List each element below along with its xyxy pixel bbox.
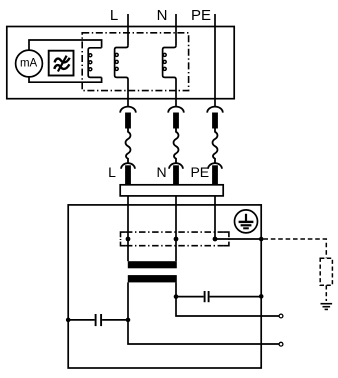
junction: secondary right / C2 [174, 294, 179, 299]
svg-text:PE: PE [190, 164, 209, 180]
connector socket PE (lower) [208, 163, 222, 169]
capacitor C2 [176, 291, 261, 302]
svg-text:N: N [156, 164, 166, 180]
wire secondary left [128, 282, 279, 344]
dashed earth connection (external) [263, 239, 326, 258]
winding W2 (L conductor) [115, 46, 128, 108]
connector pin L (upper) [125, 113, 131, 129]
transformer secondary bar [128, 275, 177, 282]
filter symbol (crossed sine waves) [54, 56, 69, 72]
output terminal (lower) [279, 342, 283, 346]
protective-earth terminal symbol (earth in circle) [235, 210, 258, 233]
wire PE (top, straight through box) [214, 14, 216, 107]
junction: L at filter [126, 237, 131, 242]
junction: C2 at enclosure wall [259, 294, 264, 299]
connector socket L (lower) [121, 163, 135, 169]
svg-text:mA: mA [20, 57, 38, 69]
measuring-unit enclosure (top box) [7, 27, 234, 99]
capacitor C1 [68, 314, 128, 326]
mains filter block (dash-dot screen) [121, 232, 229, 246]
junction: PE at filter [213, 237, 218, 242]
transformer primary bar [128, 261, 177, 268]
flexible cord PE [213, 129, 218, 164]
milliammeter mA [16, 50, 43, 77]
junction: PE at enclosure wall [259, 237, 264, 242]
current-probe screen (dash-dot box around windings) [82, 33, 188, 91]
svg-text:L: L [110, 7, 118, 24]
appliance inlet terminal strip [120, 185, 223, 196]
junction: N at filter [174, 237, 179, 242]
sense winding W1 [88, 48, 101, 78]
wire N (top) [175, 14, 177, 45]
flexible cord N [174, 129, 179, 164]
wire N (strip to transformer primary) [175, 196, 177, 261]
connector pin L (lower) [125, 165, 131, 185]
connector pin PE (lower) [212, 165, 218, 185]
junction: C1 at secondary left [126, 318, 131, 323]
svg-text:PE: PE [191, 7, 211, 24]
earth (ground) symbol [321, 304, 333, 310]
connector socket N (upper) [168, 107, 184, 113]
wire: measuring loop through sense winding [29, 40, 102, 50]
EUT enclosure (bottom box) [68, 205, 261, 368]
wire L (top) [127, 14, 129, 45]
flexible cord L [126, 129, 131, 164]
svg-text:L: L [108, 164, 116, 180]
wire PE to enclosure [215, 238, 261, 240]
output terminal (upper) [279, 314, 283, 318]
dashed wire to earth [325, 285, 327, 301]
wire secondary right [176, 282, 279, 316]
winding W3 (N conductor) [163, 46, 176, 108]
junction: enclosure left wall / C1 [66, 318, 71, 323]
filter box [49, 51, 74, 76]
wire PE (strip into EUT) [214, 196, 216, 239]
connector pin N (upper) [173, 113, 179, 129]
connector socket N (lower) [169, 163, 183, 169]
wire L (strip to transformer primary) [127, 196, 129, 261]
connector pin PE (upper) [212, 113, 218, 129]
connector pin N (lower) [173, 165, 179, 185]
connector socket L (upper) [120, 107, 136, 113]
svg-text:N: N [157, 7, 168, 24]
dashed impedance box [320, 258, 332, 285]
connector socket PE (upper) [207, 107, 223, 113]
